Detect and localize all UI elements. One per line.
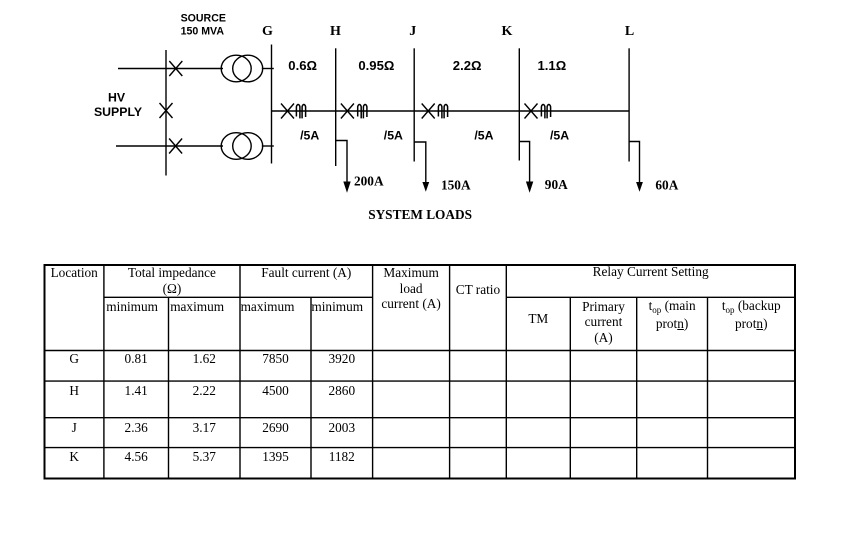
load arrow K [526,182,533,193]
load branch at J [414,142,426,184]
table text [45,265,104,280]
wire T1 to bus G [262,68,274,70]
bus L [628,48,630,161]
breaker on HV supply bus [160,103,173,118]
bus J [413,48,415,161]
load arrow L [636,182,643,192]
breaker X3 [422,104,435,119]
load branch at L [629,142,639,184]
load branch at K [519,142,529,184]
transformer T2 [221,133,263,160]
load branch at H [336,141,347,184]
wire feeder K to L [519,110,629,112]
bus K [518,48,520,160]
wire top source branch [118,68,223,70]
wire feeder H to J [336,110,415,112]
CT CT1 [296,104,305,118]
breaker X1 [281,104,294,119]
breaker top source branch [169,61,182,76]
load arrow J [422,182,429,192]
wire T2 to bus G [262,145,274,147]
CT CT3 [438,104,447,118]
breaker X2 [341,104,354,119]
wire feeder J to K [414,110,519,112]
wire bottom source branch [116,145,223,147]
breaker bottom source branch [169,139,182,154]
breaker X4 [525,104,538,119]
load arrow H [343,182,350,193]
wire HV supply bus [165,50,167,176]
bus H [335,48,337,166]
CT CT4 [541,104,550,118]
bus G [271,45,273,164]
wire feeder G to H [272,110,336,112]
transformer T1 [221,55,263,82]
CT CT2 [358,104,367,118]
